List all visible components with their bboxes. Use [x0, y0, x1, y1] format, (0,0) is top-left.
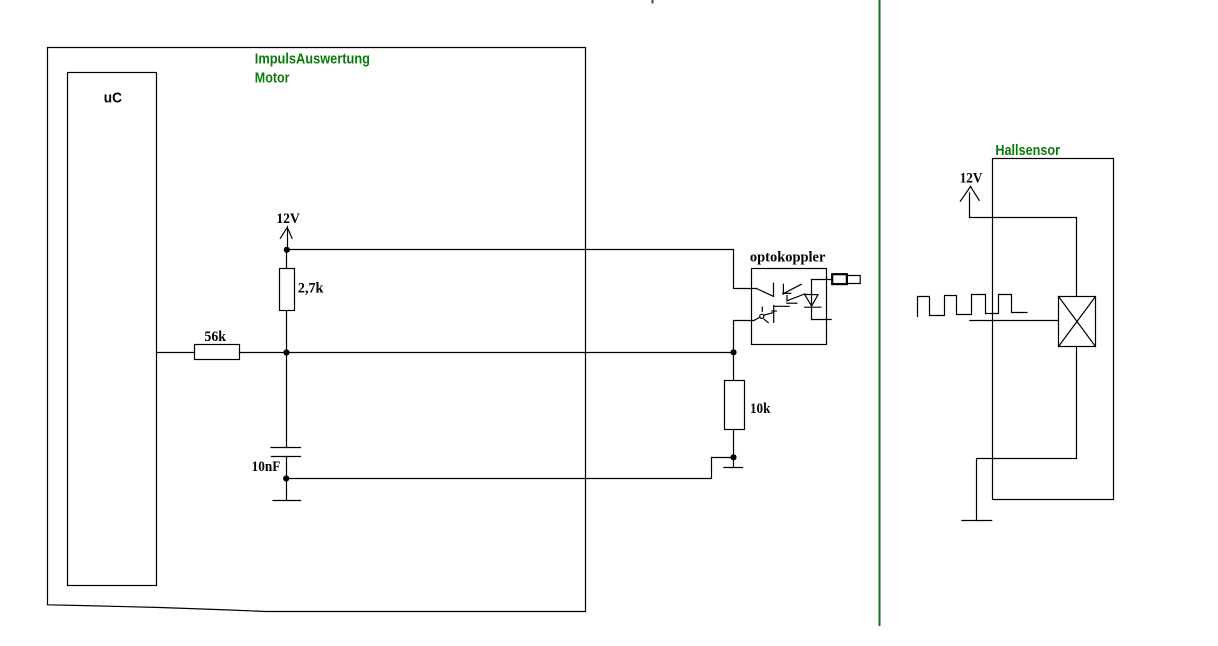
- wire node A up to R-2,7k: [286, 311, 288, 353]
- svg-text:2,7k: 2,7k: [298, 280, 324, 296]
- node 12V junction: [284, 247, 290, 253]
- wire node B to optokoppler emitter: [734, 321, 754, 353]
- wire 12V hall to hall element: [970, 218, 1077, 297]
- ground hall: [962, 520, 992, 522]
- node D junction: [730, 454, 736, 460]
- ground below capacitor: [286, 479, 288, 501]
- light arrow 2: [787, 294, 804, 301]
- LED D1 cathode wire: [812, 319, 832, 321]
- ground at node D: [733, 458, 735, 468]
- wire 2,7k to 12V node: [286, 250, 288, 269]
- svg-text:uC: uC: [104, 89, 122, 106]
- wire node A to node B: [287, 352, 734, 354]
- phototransistor Q1 base bar lower: [773, 306, 775, 323]
- wire hall element to ground: [977, 347, 1077, 521]
- phototransistor Q1 emitter leads: [754, 317, 760, 320]
- LED D1 anode wire to connector: [812, 279, 833, 281]
- box ImpulsAuswertung Motor: [48, 48, 586, 612]
- svg-text:56k: 56k: [204, 329, 226, 345]
- resistor 56k: [195, 345, 240, 360]
- wire uC to R-56k: [157, 352, 195, 354]
- svg-text:10k: 10k: [750, 401, 771, 417]
- wire node B down to R-10k: [733, 353, 735, 381]
- wire node A down to capacitor: [286, 353, 288, 448]
- wire 12V rail to optokoppler: [287, 250, 757, 289]
- wire node C to node D: [286, 458, 733, 479]
- svg-text:optokoppler: optokoppler: [750, 249, 826, 265]
- square wave signal: [918, 295, 1028, 317]
- node A junction: [283, 349, 289, 355]
- optokoppler box U2: [752, 269, 827, 345]
- svg-text:Hallsensor: Hallsensor: [995, 143, 1060, 159]
- light arrow 1: [785, 284, 801, 293]
- wire 10k to node D: [733, 430, 735, 458]
- node B junction: [730, 349, 736, 355]
- svg-text:12V: 12V: [276, 211, 300, 227]
- capacitor 10nF bottom plate: [272, 456, 301, 458]
- green tick top: [652, 0, 654, 4]
- uC U1: [68, 73, 157, 586]
- svg-text:12V: 12V: [960, 170, 983, 186]
- svg-text:ImpulsAuswertung: ImpulsAuswertung: [255, 51, 370, 67]
- connector plug thick part: [832, 274, 847, 284]
- green separator line: [879, 0, 881, 626]
- hall element X-box: [1059, 297, 1096, 347]
- wire capacitor to node C: [286, 457, 288, 479]
- LED D1 cathode bar: [805, 306, 821, 308]
- supply arrow 12V hall: [969, 193, 971, 218]
- phototransistor Q1 base bar upper: [773, 283, 775, 296]
- Hallsensor box: [993, 159, 1114, 500]
- svg-text:Motor: Motor: [255, 70, 290, 86]
- resistor 2,7k: [280, 269, 295, 311]
- signal wire to hall element: [970, 320, 1059, 322]
- phototransistor Q1 tick: [772, 310, 777, 312]
- LED D1 vertical lead: [811, 280, 813, 320]
- supply arrow 12V: [287, 227, 289, 250]
- phototransistor Q1 collector lead: [757, 289, 774, 297]
- node C junction: [283, 475, 289, 481]
- LED D1 triangle: [805, 294, 818, 306]
- svg-text:10nF: 10nF: [252, 459, 281, 475]
- phototransistor Q1 base line: [774, 305, 789, 307]
- phototransistor Q1 emitter circle: [760, 314, 764, 318]
- resistor 10k: [725, 381, 745, 430]
- connector plug thin part: [847, 276, 861, 284]
- wire 56k to node A: [240, 352, 287, 354]
- capacitor 10nF top plate: [271, 447, 301, 449]
